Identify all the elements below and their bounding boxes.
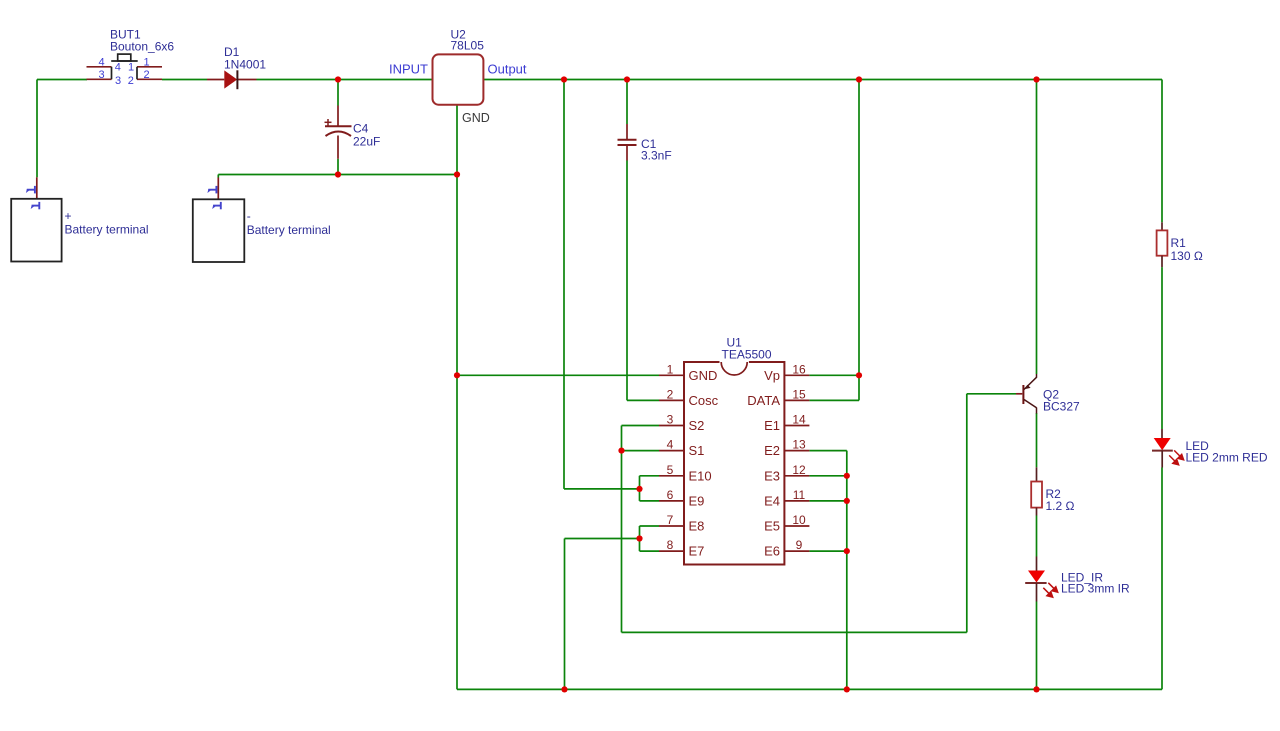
svg-text:4: 4 [667,438,674,452]
svg-text:+: + [65,209,72,223]
svg-text:5: 5 [667,463,674,477]
svg-text:8: 8 [667,538,674,552]
svg-text:3.3nF: 3.3nF [641,149,672,163]
svg-text:GND: GND [689,368,718,383]
svg-text:LED 3mm IR: LED 3mm IR [1061,582,1130,596]
svg-text:E1: E1 [764,418,780,433]
svg-text:1: 1 [667,362,674,376]
svg-text:7: 7 [667,513,674,527]
svg-text:12: 12 [792,463,806,477]
svg-text:E3: E3 [764,468,780,483]
svg-text:DATA: DATA [747,393,780,408]
svg-text:2: 2 [128,75,134,87]
svg-text:BC327: BC327 [1043,400,1080,414]
svg-text:Cosc: Cosc [689,393,719,408]
svg-text:3: 3 [667,413,674,427]
svg-text:9: 9 [796,538,803,552]
svg-text:3: 3 [115,75,121,87]
svg-text:78L05: 78L05 [451,39,485,53]
svg-text:14: 14 [792,413,806,427]
svg-text:INPUT: INPUT [389,62,428,77]
svg-text:130 Ω: 130 Ω [1171,249,1203,263]
svg-text:3: 3 [98,69,104,81]
svg-text:2: 2 [667,387,674,401]
svg-text:E5: E5 [764,519,780,534]
svg-text:16: 16 [792,362,806,376]
svg-text:E9: E9 [689,493,705,508]
svg-text:1: 1 [143,57,149,69]
svg-text:13: 13 [792,438,806,452]
svg-text:Bouton_6x6: Bouton_6x6 [110,40,174,54]
svg-text:10: 10 [792,513,806,527]
svg-text:4: 4 [98,57,104,69]
svg-text:E2: E2 [764,443,780,458]
svg-text:Battery terminal: Battery terminal [247,223,331,237]
svg-text:6: 6 [667,488,674,502]
svg-text:-: - [247,209,251,223]
svg-text:E6: E6 [764,544,780,559]
svg-text:TEA5500: TEA5500 [722,348,772,362]
svg-text:1.2 Ω: 1.2 Ω [1046,499,1075,513]
svg-text:15: 15 [792,387,806,401]
svg-text:1: 1 [128,61,134,73]
svg-text:S1: S1 [689,443,705,458]
svg-text:22uF: 22uF [353,134,380,148]
svg-text:1N4001: 1N4001 [224,58,266,72]
svg-text:E7: E7 [689,544,705,559]
svg-text:E4: E4 [764,493,780,508]
svg-text:2: 2 [143,69,149,81]
svg-text:E8: E8 [689,519,705,534]
svg-text:S2: S2 [689,418,705,433]
svg-text:Battery terminal: Battery terminal [65,223,149,237]
svg-text:LED 2mm RED: LED 2mm RED [1186,451,1268,465]
svg-text:11: 11 [793,488,806,502]
svg-text:Output: Output [488,62,527,77]
svg-text:E10: E10 [689,468,712,483]
svg-text:4: 4 [115,61,121,73]
svg-text:GND: GND [462,111,490,125]
svg-text:Vp: Vp [764,368,780,383]
